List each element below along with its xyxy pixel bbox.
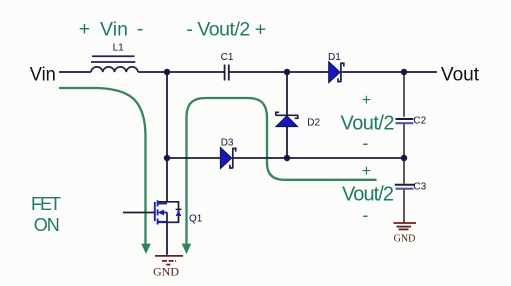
- svg-text:C3: C3: [413, 182, 426, 193]
- svg-text:L1: L1: [113, 43, 125, 54]
- svg-text:ON: ON: [34, 215, 60, 235]
- svg-text:GND: GND: [153, 266, 179, 278]
- svg-text:D3: D3: [221, 137, 234, 148]
- svg-text:Vout/2: Vout/2: [342, 184, 394, 206]
- svg-text:Vin: Vin: [100, 19, 128, 41]
- svg-text:- Vout/2 +: - Vout/2 +: [186, 19, 266, 41]
- svg-text:D2: D2: [307, 118, 320, 129]
- svg-text:+: +: [79, 18, 90, 40]
- svg-text:+: +: [362, 92, 371, 109]
- svg-text:Q1: Q1: [189, 214, 203, 225]
- svg-text:D1: D1: [328, 52, 341, 63]
- svg-text:+: +: [362, 163, 371, 180]
- svg-text:Vin: Vin: [30, 64, 56, 86]
- svg-text:Vout/2: Vout/2: [341, 113, 395, 135]
- svg-text:C2: C2: [413, 116, 426, 127]
- svg-text:Vout: Vout: [441, 64, 480, 86]
- svg-text:GND: GND: [394, 232, 416, 244]
- svg-text:-: -: [362, 205, 368, 225]
- svg-text:-: -: [362, 133, 368, 153]
- svg-text:-: -: [137, 19, 143, 40]
- svg-text:C1: C1: [221, 52, 234, 63]
- svg-text:FET: FET: [31, 194, 61, 214]
